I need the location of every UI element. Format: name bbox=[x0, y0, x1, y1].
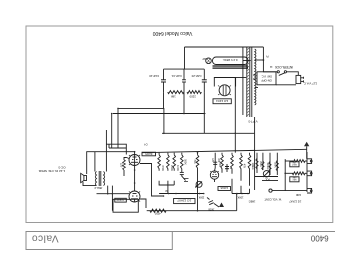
wire heater branch bbox=[109, 147, 126, 149]
output transformer T2 primary bbox=[104, 172, 105, 186]
tube V1 12AV6 bbox=[210, 171, 218, 179]
svg-text:2200: 2200 bbox=[189, 95, 196, 99]
capacitor C11 bbox=[182, 79, 186, 81]
wire primary bottom to plate run bbox=[107, 186, 109, 194]
svg-text:500K: 500K bbox=[183, 159, 186, 165]
tube V1 pin arrows bbox=[210, 171, 218, 172]
svg-text:6.3 V WDG.: 6.3 V WDG. bbox=[222, 58, 237, 62]
svg-text:47K: 47K bbox=[243, 164, 246, 169]
svg-text:SW. V.C.: SW. V.C. bbox=[261, 75, 272, 79]
svg-text:Valco: Valco bbox=[31, 233, 58, 244]
wire B+ branch upper bbox=[118, 107, 164, 109]
capacitor C6 bbox=[209, 201, 214, 203]
svg-text:C4: C4 bbox=[144, 143, 148, 147]
resistor R9 on rail bbox=[150, 209, 166, 212]
wire stage2 bottom bbox=[232, 193, 250, 195]
svg-text:470K: 470K bbox=[161, 165, 164, 171]
wire plate run bbox=[97, 193, 130, 195]
capacitor C4 coupling bbox=[181, 169, 183, 173]
triode element V1b bbox=[184, 179, 189, 182]
wire B+ upper jog bbox=[106, 144, 126, 154]
brand box bbox=[26, 232, 172, 250]
wire B+ node risers bbox=[163, 92, 165, 108]
wire jack3 shielded run bbox=[272, 190, 307, 192]
pilot lamp PL1 bbox=[206, 58, 212, 64]
wire OT drop bbox=[111, 186, 113, 211]
wire rail end riser bbox=[236, 194, 238, 211]
wire stage bottom bus bbox=[159, 193, 204, 195]
wire jack ground bus bbox=[306, 152, 308, 192]
svg-text:CAP-C1: CAP-C1 bbox=[171, 74, 182, 78]
wire channel bus bbox=[284, 159, 286, 191]
wire grid rail bbox=[142, 149, 307, 152]
resistor R14 top lead bbox=[123, 170, 125, 176]
power transformer T1 primary winding bbox=[255, 49, 256, 105]
node dots interstage bbox=[134, 182, 136, 184]
AC plug P1 bbox=[296, 75, 301, 83]
wire rectifier loop bbox=[214, 78, 235, 87]
svg-text:V PT-3: V PT-3 bbox=[248, 120, 258, 124]
resistor R15 column bbox=[256, 153, 258, 173]
potentiometer P1 bbox=[263, 171, 269, 177]
wire interstage bbox=[134, 166, 136, 192]
svg-text:250K: 250K bbox=[170, 165, 173, 171]
wire secondary stub bbox=[255, 87, 258, 89]
wire bottom rail bbox=[147, 210, 237, 212]
output transformer T2 core bbox=[100, 171, 102, 186]
svg-text:70K: 70K bbox=[193, 159, 196, 164]
wire heater stub bbox=[243, 60, 251, 62]
resistor R2 bbox=[305, 172, 307, 174]
header rule bbox=[26, 231, 335, 233]
input jack J3 bbox=[307, 188, 312, 193]
tube V1 label box bbox=[218, 187, 231, 191]
svg-text:117 V.A.C.: 117 V.A.C. bbox=[303, 82, 317, 86]
svg-text:OC-3: OC-3 bbox=[58, 166, 65, 170]
svg-text:12AX7: 12AX7 bbox=[116, 198, 124, 202]
wire speaker bottom bbox=[83, 182, 97, 186]
node A bbox=[263, 59, 265, 61]
node dots bbox=[203, 193, 205, 195]
output transformer T2 secondary bbox=[95, 172, 96, 186]
speaker SP1 bbox=[84, 176, 87, 181]
jack label box 2 bbox=[290, 177, 299, 182]
wire AC drop bbox=[263, 60, 277, 72]
node dots junctions bbox=[134, 151, 136, 153]
svg-text:GND: GND bbox=[296, 193, 302, 196]
svg-text:JBH-3: JBH-3 bbox=[94, 186, 102, 190]
capacitor C10 bbox=[202, 79, 207, 81]
svg-text:220: 220 bbox=[120, 163, 124, 168]
svg-text:4700: 4700 bbox=[154, 212, 160, 216]
svg-text:1/2 12AX7: 1/2 12AX7 bbox=[177, 199, 191, 203]
svg-text:VOL: VOL bbox=[265, 177, 270, 180]
wire speaker top bbox=[87, 152, 135, 174]
svg-text:1/2 12X4: 1/2 12X4 bbox=[216, 99, 228, 103]
svg-text:250K: 250K bbox=[259, 161, 262, 167]
svg-text:.002: .002 bbox=[217, 158, 219, 163]
svg-text:500K: 500K bbox=[273, 162, 276, 168]
resistor R1 bbox=[305, 160, 307, 162]
wire column joiner bbox=[159, 181, 174, 185]
wire rectifier plate riser bbox=[234, 78, 236, 153]
ground arrow bbox=[219, 203, 224, 208]
wire long drop bbox=[197, 168, 199, 211]
schematic sheet border frame bbox=[26, 26, 333, 223]
resistor R6 bbox=[167, 155, 170, 171]
tube V3 6AQ5 bbox=[129, 155, 140, 166]
wire branch riser right bbox=[111, 114, 113, 149]
power transformer T1 secondary winding bbox=[246, 47, 248, 117]
wire screen riser bbox=[163, 108, 165, 133]
rectifier tube V4 bbox=[219, 85, 230, 96]
wire cathode bbox=[124, 158, 127, 161]
tube V3 pins bbox=[134, 152, 136, 166]
tube V1 pins bbox=[214, 179, 216, 182]
resistor R10 bbox=[248, 155, 251, 186]
capacitor C1 column bbox=[262, 153, 264, 170]
input jack J2 bbox=[307, 171, 312, 176]
tube V2 pin arrows bbox=[129, 192, 140, 202]
heater loop bbox=[213, 57, 249, 65]
resistor R7 bbox=[173, 155, 176, 171]
svg-text:100K: 100K bbox=[237, 196, 243, 200]
wire cap diagonal bbox=[182, 175, 186, 181]
resistor R4 column bbox=[269, 153, 271, 175]
tube V2 12AX7 bbox=[129, 191, 140, 202]
svg-text:INTERLOCK: INTERLOCK bbox=[274, 65, 293, 69]
capacitor C3 electrolytic bbox=[226, 164, 228, 172]
svg-text:12AV6: 12AV6 bbox=[220, 186, 228, 190]
ground arrow input bbox=[304, 142, 309, 147]
switch SW1 bbox=[277, 71, 279, 73]
wire B+ branch lower bbox=[113, 113, 206, 115]
node dots row2 bbox=[247, 193, 249, 195]
wire V1 plate feed bbox=[254, 133, 256, 190]
svg-text:10K: 10K bbox=[292, 161, 296, 163]
wire screen drop to OT bbox=[254, 117, 256, 133]
tube V2 label box bbox=[115, 198, 127, 202]
wire AC riser bbox=[262, 47, 264, 60]
power switch box SW2 on-off bbox=[257, 72, 276, 85]
resistor R20 bbox=[168, 91, 184, 94]
svg-text:1MEG: 1MEG bbox=[248, 200, 255, 203]
resistor R16 on drop bbox=[196, 155, 199, 168]
svg-text:Valco Model 6400: Valco Model 6400 bbox=[152, 30, 192, 36]
svg-text:16K: 16K bbox=[171, 95, 176, 99]
svg-text:CAP-20: CAP-20 bbox=[191, 74, 201, 78]
svg-text:.0005: .0005 bbox=[208, 208, 215, 212]
wire branch riser right2 bbox=[117, 108, 119, 148]
wire cap upper leads bbox=[203, 82, 205, 92]
resistor R3 column bbox=[276, 153, 278, 175]
wire secondary top bbox=[94, 152, 96, 172]
entire scanned page is upside down: draw upright inside rotated group bbox=[26, 26, 335, 250]
tube V2b label box bbox=[174, 199, 195, 204]
wire B+ top run bbox=[185, 46, 264, 48]
resistor R11 bbox=[240, 155, 243, 181]
resistor R21 bbox=[187, 91, 201, 94]
svg-text:1/2 12AX7: 1/2 12AX7 bbox=[289, 200, 302, 204]
wire V2 cathode loop bbox=[113, 199, 138, 212]
capacitor C12 bbox=[161, 79, 166, 81]
wire V3 grid feed bbox=[140, 164, 164, 197]
potentiometer P2 bbox=[196, 181, 202, 187]
svg-text:68K: 68K bbox=[292, 176, 296, 178]
wire secondary top to node A bbox=[255, 59, 263, 61]
resistor R12 bbox=[231, 155, 234, 174]
svg-text:100K: 100K bbox=[176, 165, 179, 171]
svg-text:250K: 250K bbox=[198, 196, 204, 199]
wire switch to plug bbox=[287, 72, 299, 76]
wire switch to primary bbox=[253, 78, 256, 80]
svg-text:W. VOL CONT.: W. VOL CONT. bbox=[264, 198, 282, 202]
wire primary top riser bbox=[105, 130, 107, 172]
power transformer T1 core bbox=[251, 47, 253, 117]
capacitor C5 grid bbox=[214, 153, 216, 168]
svg-text:1MEG: 1MEG bbox=[251, 162, 254, 169]
wire rectifier feed bbox=[184, 47, 186, 69]
resistor R5 bbox=[158, 155, 161, 171]
wire cap leads bbox=[203, 69, 205, 80]
wire AC bottom run bbox=[276, 84, 296, 86]
input jack J1 bbox=[307, 159, 312, 164]
wire V2 drop bbox=[134, 199, 136, 202]
rectifier label box bbox=[213, 99, 231, 104]
wire heater run riser bbox=[242, 47, 244, 115]
wire rectifier heater tap bbox=[236, 77, 247, 79]
wire filter bottom rail bbox=[164, 68, 205, 70]
svg-text:3W: 3W bbox=[202, 57, 206, 61]
svg-text:Ft: Ft bbox=[266, 54, 269, 58]
heater wires pair bbox=[213, 67, 249, 69]
svg-text:6400: 6400 bbox=[310, 233, 328, 242]
svg-text:CAP-10: CAP-10 bbox=[149, 74, 159, 78]
resistor R14 cathode bbox=[123, 160, 126, 170]
wire screen run bbox=[162, 132, 255, 134]
wire tone rails bbox=[255, 176, 278, 178]
wire tube2 jog bbox=[140, 199, 146, 208]
resistor R13 bbox=[221, 155, 224, 173]
tube V3 label box bbox=[142, 152, 156, 156]
jack label box 1 bbox=[290, 162, 299, 167]
tube V3 pin arrows bbox=[129, 155, 140, 165]
resistor R8 bbox=[181, 155, 184, 169]
svg-text:3MEG: 3MEG bbox=[266, 163, 269, 170]
